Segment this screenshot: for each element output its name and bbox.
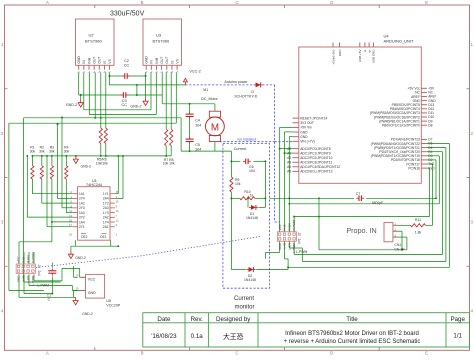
svg-text:IN: IN [150, 60, 154, 64]
svg-text:INH: INH [87, 57, 91, 63]
svg-text:1Y2: 1Y2 [103, 201, 109, 205]
wire D5 net y261.5 [427, 147, 446, 149]
svg-text:BTS7960: BTS7960 [85, 39, 102, 44]
svg-text:R11: R11 [415, 218, 421, 222]
svg-text:U4: U4 [384, 33, 390, 38]
svg-text:4: 4 [1, 308, 4, 313]
IC U1 74HC244 [78, 187, 110, 241]
resistor R3 [50, 166, 53, 179]
svg-text:Current: Current [234, 147, 248, 151]
U3 pins [145, 65, 147, 70]
svg-text:SCHOTTKY-D: SCHOTTKY-D [234, 95, 257, 99]
wire R3 to J1 vcc [19, 241, 52, 243]
wire left vertical ends [9, 290, 44, 292]
wire OE gnd rail [74, 240, 76, 246]
svg-text:C: C [48, 298, 51, 302]
wire J2 GND bottom [279, 241, 281, 252]
wire D4 net y254.4 [427, 151, 443, 153]
svg-text:1: 1 [1, 42, 4, 47]
svg-text:30k: 30k [39, 149, 45, 153]
svg-text:L-EN: L-EN [287, 243, 291, 250]
wire D2 anode link [287, 267, 289, 269]
wire R5 R6 bottoms [100, 143, 102, 156]
svg-text:2x4: 2x4 [297, 239, 301, 244]
diode D2 [249, 267, 254, 272]
svg-text:U2: U2 [89, 33, 95, 38]
power VCC-2 [183, 78, 187, 82]
IC U2 BTS7960 [76, 19, 115, 65]
svg-text:D: D [330, 0, 333, 5]
svg-text:not installed: not installed [237, 137, 256, 141]
svg-text:大王恐: 大王恐 [223, 332, 244, 341]
svg-text:J1: J1 [37, 265, 41, 269]
frame column ticks [94, 5, 96, 8]
wire J1 top stubs [23, 252, 25, 264]
svg-text:INH: INH [155, 57, 159, 63]
U2 pins [78, 65, 80, 70]
svg-text:GND-2: GND-2 [82, 312, 93, 316]
svg-text:104: 104 [195, 148, 201, 152]
ground GND-2 right of C3 [145, 98, 147, 101]
svg-text:ADC0/PC0/JPCINT8: ADC0/PC0/JPCINT8 [300, 147, 331, 151]
svg-text:OE2: OE2 [81, 235, 88, 239]
svg-text:1A3: 1A3 [79, 211, 85, 215]
capacitor C5 [186, 138, 194, 140]
svg-text:L-PWM: L-PWM [38, 284, 49, 288]
capacitor C3 [122, 92, 124, 98]
svg-text:3: 3 [1, 220, 4, 225]
resistor R11 [411, 224, 426, 227]
wire R1-R4 bottoms to U1 [31, 179, 33, 194]
wire VCC row [109, 84, 185, 86]
svg-text:9: 9 [116, 223, 118, 227]
svg-text:DC_Motor: DC_Motor [201, 97, 218, 101]
wire C3 row [79, 94, 122, 96]
svg-text:1.8k: 1.8k [415, 231, 422, 235]
svg-text:Title: Title [346, 316, 358, 323]
svg-text:7: 7 [116, 214, 118, 218]
svg-text:L-EN: L-EN [26, 276, 30, 283]
svg-text:D: D [330, 350, 333, 355]
svg-text:R-IS: R-IS [283, 225, 287, 231]
svg-text:2Y2: 2Y2 [79, 216, 85, 220]
wire left verticals [8, 123, 10, 290]
svg-text:Page: Page [450, 316, 465, 323]
resistor R10 [240, 197, 255, 200]
wire bus row3 [24, 117, 182, 119]
svg-text:2Y1: 2Y1 [79, 225, 85, 229]
svg-text:R-PWM: R-PWM [292, 220, 296, 231]
svg-text:104: 104 [249, 169, 255, 173]
svg-text:C7: C7 [356, 192, 361, 196]
svg-text:30k: 30k [49, 149, 55, 153]
svg-text:D: D [251, 90, 254, 94]
svg-text:IN: IN [82, 60, 86, 64]
U4 left pins upper [292, 117, 298, 119]
ground GND-2 near J1 [70, 251, 72, 254]
resistor R6 [104, 128, 107, 143]
wire R7 R8 bottoms [165, 146, 167, 156]
wire bus row4 [9, 122, 176, 124]
svg-text:2Y4: 2Y4 [79, 197, 85, 201]
wire motor bottom rail [214, 142, 216, 152]
svg-text:1Y3: 1Y3 [103, 211, 109, 215]
wire D6 net y267.3 [427, 143, 449, 145]
svg-text:104: 104 [195, 123, 201, 127]
svg-text:BTS7960: BTS7960 [153, 39, 170, 44]
svg-text:A: A [46, 0, 49, 5]
svg-text:R-EN: R-EN [26, 255, 30, 262]
svg-text:OUT: OUT [93, 57, 97, 64]
svg-text:30k: 30k [64, 149, 70, 153]
motor M1 [206, 117, 225, 136]
IC U4 ARDUINO_UNIT [299, 47, 422, 183]
svg-text:ADC4/PC4/SDA/JPCINT12: ADC4/PC4/SDA/JPCINT12 [300, 165, 340, 169]
svg-text:1k: 1k [250, 193, 254, 197]
svg-text:GND-2: GND-2 [130, 105, 141, 109]
svg-text:5: 5 [116, 204, 118, 208]
svg-text:1A4: 1A4 [79, 220, 85, 224]
svg-text:1N4148: 1N4148 [246, 216, 258, 220]
svg-text:PCIN16: PCIN16 [408, 166, 420, 170]
svg-text:B: B [141, 0, 144, 5]
svg-text:GND: GND [17, 275, 21, 283]
svg-text:–4: –4 [160, 71, 163, 74]
svg-text:30k: 30k [30, 149, 36, 153]
U4 left pins ADC [292, 148, 298, 150]
svg-text:3V3 OUT: 3V3 OUT [300, 121, 314, 125]
wire A0 A1 to J2 [280, 148, 293, 150]
svg-text:L-PWM: L-PWM [31, 275, 35, 286]
arduino power dashed wire [185, 84, 254, 86]
svg-text:ADC5/SCL/JPCINT13: ADC5/SCL/JPCINT13 [300, 170, 332, 174]
svg-text:2: 2 [1, 131, 4, 136]
svg-text:C2: C2 [124, 59, 129, 63]
svg-text:Arduino power: Arduino power [224, 80, 248, 84]
svg-text:2A2: 2A2 [103, 216, 109, 220]
svg-text:1N4148: 1N4148 [244, 278, 256, 282]
svg-text:M: M [211, 122, 219, 133]
resistor R1 [31, 166, 34, 179]
svg-text:ADC1/PC1/JPCINT9: ADC1/PC1/JPCINT9 [300, 151, 331, 155]
svg-text:10k: 10k [235, 182, 241, 186]
resistor R5 [99, 128, 102, 143]
svg-text:J2: J2 [297, 233, 301, 237]
wire R9 branch [230, 161, 232, 177]
svg-text:D8: D8 [428, 123, 432, 127]
wire R1-R4 top rail [32, 155, 171, 157]
wire TxD to R11 [427, 163, 433, 165]
resistor R7 [165, 129, 168, 145]
svg-text:OUT: OUT [160, 57, 164, 64]
capacitor C2 [124, 73, 126, 79]
current monitor dashed box [223, 144, 270, 289]
capacitor C6 [245, 159, 247, 165]
svg-text:Designed by: Designed by [216, 316, 251, 323]
svg-text:ADC2/PC2/JPCINT10: ADC2/PC2/JPCINT10 [300, 156, 332, 160]
svg-text:IS: IS [170, 60, 174, 64]
wire D2 net [427, 159, 436, 161]
resistor R9 [230, 177, 233, 192]
svg-text:10k/10k: 10k/10k [96, 161, 108, 165]
wire RxD net y216.6 [427, 167, 429, 169]
svg-text:E: E [425, 350, 428, 355]
svg-text:ARDUINO_UNIT: ARDUINO_UNIT [384, 39, 415, 44]
capacitor C1 [48, 270, 56, 272]
ground GND-2 left of U2 [80, 100, 82, 103]
svg-text:2A3: 2A3 [103, 206, 109, 210]
wire U3 pin verticals [145, 73, 147, 99]
svg-text:–5: –5 [165, 71, 168, 74]
wire bus row2 [89, 114, 156, 116]
svg-text:VCC: VCC [278, 223, 282, 230]
resistor R8 [170, 129, 173, 145]
title block table [143, 313, 470, 347]
U4 top pins usb [359, 42, 361, 47]
svg-text:GND: GND [338, 49, 342, 57]
svg-text:1: 1 [471, 42, 474, 47]
wire R10 row [231, 197, 239, 199]
svg-text:1/1: 1/1 [453, 333, 462, 340]
connector CN1 [384, 223, 393, 242]
svg-text:C: C [235, 0, 238, 5]
svg-text:OUT: OUT [165, 57, 169, 64]
wire D1 row [247, 198, 249, 207]
svg-text:USB +5V: USB +5V [358, 50, 362, 62]
svg-text:GND: GND [88, 291, 96, 295]
svg-text:10k 10k: 10k 10k [163, 162, 175, 166]
wire motor top rail [162, 103, 215, 105]
frame row ticks [5, 88, 8, 90]
wire bus row1 [84, 109, 151, 111]
wire D2 diode row [231, 269, 245, 271]
svg-text:1Y4: 1Y4 [103, 220, 109, 224]
svg-text:3: 3 [471, 220, 474, 225]
svg-text:B: B [141, 350, 144, 355]
svg-text:Current: Current [234, 296, 254, 302]
resistor R2 [40, 166, 43, 179]
svg-text:GND: GND [300, 135, 308, 139]
wire C4 C5 link [189, 118, 191, 137]
svg-text:C5: C5 [195, 143, 200, 147]
svg-text:PB0/ICP1/CLK0/JPCINT0: PB0/ICP1/CLK0/JPCINT0 [382, 124, 420, 128]
U4 right pins upper [421, 87, 427, 89]
svg-text:'16/08/23: '16/08/23 [151, 333, 177, 340]
svg-text:4: 4 [471, 308, 474, 313]
svg-text:RESET-JPCINT14: RESET-JPCINT14 [300, 116, 327, 120]
diode D1 [251, 205, 256, 210]
wire feeds to U1 rows 2 4 6 8 [57, 124, 59, 198]
svg-text:330uF/50V: 330uF/50V [110, 10, 145, 17]
svg-text:ADC3/PC3/JPCINT11: ADC3/PC3/JPCINT11 [300, 161, 332, 165]
ground GND-2 of R rail [75, 156, 77, 159]
svg-text:L-PWM: L-PWM [296, 250, 307, 254]
svg-text:GND: GND [145, 56, 149, 64]
svg-text:14: 14 [116, 209, 119, 213]
wire C1 leads [51, 263, 53, 268]
wire propo rect [318, 198, 320, 250]
svg-text:OE1: OE1 [100, 235, 107, 239]
connector J2 [277, 232, 296, 241]
svg-text:1A1: 1A1 [79, 192, 85, 196]
svg-text:GND: GND [77, 56, 81, 64]
svg-text:IS: IS [103, 60, 107, 64]
IC U3 BTS7960 [143, 19, 182, 65]
not installed dashed wire [220, 141, 275, 143]
dotted connector-pair line [36, 236, 261, 267]
svg-text:+5V Vin: +5V Vin [300, 126, 312, 130]
svg-text:+ reverse + Arduino Current li: + reverse + Arduino Current limited ESC … [284, 339, 421, 345]
svg-text:0.1a: 0.1a [191, 333, 204, 340]
wire current sense rail y198.3 [270, 197, 355, 199]
wire U1 right side [115, 193, 119, 195]
wire CN1 pins [393, 230, 402, 232]
wire C3 link [136, 85, 138, 95]
svg-text:2A4: 2A4 [103, 197, 109, 201]
svg-text:A: A [46, 350, 49, 355]
wire arduino left feeds [280, 126, 293, 128]
wire GND stub left [80, 95, 82, 100]
svg-text:VIN (>7V): VIN (>7V) [300, 140, 315, 144]
svg-text:monitor: monitor [234, 305, 254, 311]
svg-text:2: 2 [471, 131, 474, 136]
svg-text:E: E [425, 0, 428, 5]
IC U5 VCC20P power symbol [86, 274, 105, 298]
svg-text:USB GND: USB GND [372, 49, 376, 64]
svg-text:C4: C4 [195, 119, 200, 123]
svg-text:VCC-2: VCC-2 [189, 69, 200, 73]
svg-text:M1: M1 [203, 88, 208, 92]
U1 pins [73, 193, 78, 195]
svg-text:VS: VS [176, 58, 180, 63]
svg-text:R-EN: R-EN [287, 223, 291, 230]
svg-text:6800pF: 6800pF [372, 201, 384, 205]
wire U2 pin verticals [78, 73, 80, 96]
svg-text:L-IS: L-IS [21, 276, 25, 282]
svg-text:GND: GND [300, 130, 308, 134]
ground GND-2 under U5 [75, 297, 77, 300]
svg-text:74HC244: 74HC244 [86, 183, 102, 187]
svg-text:OUT: OUT [98, 57, 102, 64]
svg-text:19: 19 [69, 233, 72, 237]
svg-text:Infineon BTS7960bx2 Motor Driv: Infineon BTS7960bx2 Motor Driver on IBT-… [285, 331, 419, 337]
svg-text:Propo. IN: Propo. IN [346, 226, 376, 235]
svg-text:L-IS: L-IS [283, 243, 287, 249]
svg-text:CC: CC [121, 103, 127, 107]
svg-text:GND: GND [278, 242, 282, 250]
wire J1 bottoms [18, 274, 20, 297]
svg-text:C: C [235, 350, 238, 355]
svg-text:1Y1: 1Y1 [103, 192, 109, 196]
svg-text:GND-2: GND-2 [75, 256, 86, 260]
connector J1 [16, 264, 35, 273]
capacitor C7 [358, 195, 360, 201]
svg-text:12: 12 [116, 219, 119, 223]
svg-text:–6: –6 [170, 71, 173, 74]
wire D3 net y203.8 [427, 155, 439, 157]
svg-text:2A1: 2A1 [103, 225, 109, 229]
svg-text:VS: VS [108, 58, 112, 63]
svg-text:20: 20 [76, 274, 79, 278]
U4 right pins lower [421, 138, 427, 140]
svg-text:VCC20P: VCC20P [106, 303, 121, 307]
wire C2 row [109, 75, 122, 77]
svg-text:+5Vin(+5V): +5Vin(+5V) [331, 50, 335, 65]
svg-text:–1: –1 [145, 71, 148, 74]
wire C6 row [231, 160, 240, 162]
U4 top pins power [332, 42, 334, 47]
svg-text:1A2: 1A2 [79, 201, 85, 205]
svg-text:VCC: VCC [88, 277, 96, 281]
svg-text:Date: Date [157, 316, 171, 323]
svg-text:2Y3: 2Y3 [79, 206, 85, 210]
svg-text:R-PWM: R-PWM [31, 252, 35, 263]
svg-text:U3: U3 [156, 33, 162, 38]
svg-text:CN-3P: CN-3P [394, 247, 405, 251]
svg-text:1: 1 [116, 233, 118, 237]
svg-text:Rev.: Rev. [191, 316, 204, 323]
svg-text:2x4: 2x4 [37, 271, 41, 276]
svg-text:R-IS: R-IS [21, 257, 25, 263]
svg-text:VCC: VCC [17, 256, 21, 263]
diode D SCHOTTKY-D [256, 82, 261, 87]
wire U5 pins [74, 276, 78, 278]
svg-text:CC: CC [124, 64, 130, 68]
svg-text:GND-2: GND-2 [81, 165, 92, 169]
svg-text:16: 16 [116, 200, 119, 204]
resistor R4 [65, 166, 68, 179]
capacitor C4 [186, 113, 194, 115]
svg-text:–2: –2 [150, 71, 153, 74]
svg-text:GND-2: GND-2 [66, 103, 77, 107]
